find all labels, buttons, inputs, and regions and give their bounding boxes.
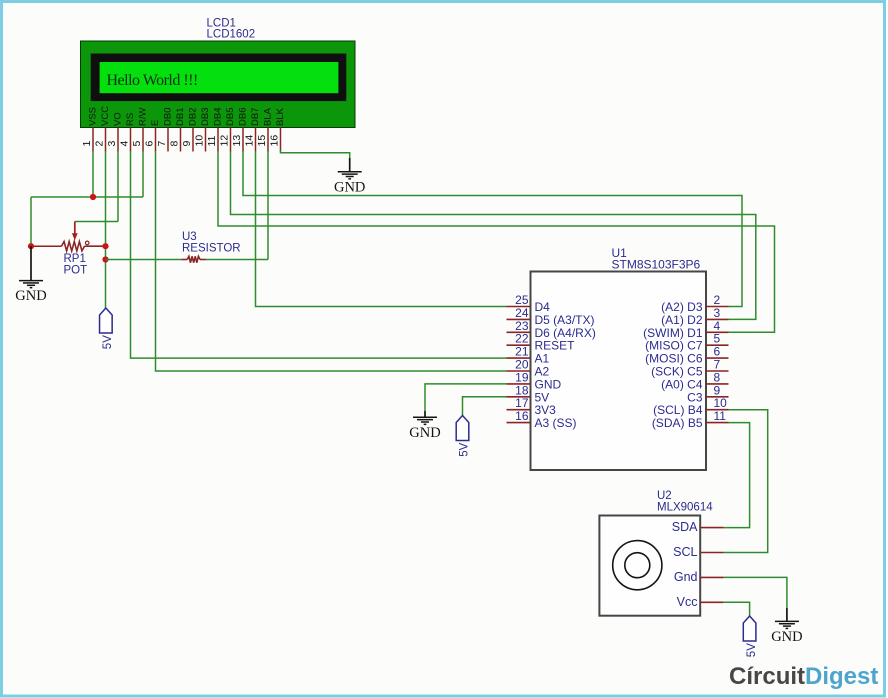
svg-text:24: 24 [515, 306, 529, 320]
LCD pin 12 DB5 stub [219, 108, 237, 152]
U1 pin 7 (SCK) C5 [651, 358, 728, 379]
svg-text:RS: RS [125, 113, 136, 126]
svg-text:5: 5 [714, 332, 721, 346]
U1 pin 10 (SCL) B4 [653, 396, 728, 417]
svg-text:17: 17 [515, 396, 529, 410]
U2 pin SCL [673, 545, 723, 559]
svg-text:Vcc: Vcc [677, 595, 698, 609]
U1 pin 19 GND [507, 370, 562, 391]
svg-text:7: 7 [156, 141, 168, 147]
svg-text:DB6: DB6 [238, 108, 249, 126]
svg-text:Hello World !!!: Hello World !!! [107, 72, 198, 89]
wire U1 5V pin18 [463, 397, 507, 416]
wire U2 Vcc to 5V [724, 602, 750, 616]
svg-text:7: 7 [714, 358, 721, 372]
svg-text:16: 16 [269, 135, 281, 147]
svg-text:GND: GND [334, 179, 365, 195]
svg-text:15: 15 [256, 135, 268, 147]
U1 pin 24 D5 (A3/TX) [507, 306, 595, 327]
svg-text:A1: A1 [535, 352, 550, 366]
svg-text:6: 6 [144, 141, 156, 147]
svg-text:RESET: RESET [535, 339, 576, 353]
U1 pin 11 (SDA) B5 [652, 409, 729, 430]
svg-text:10: 10 [714, 396, 728, 410]
svg-text:BLK: BLK [275, 107, 286, 126]
wire DB5 pin12 to U1 D2 [231, 151, 756, 319]
svg-text:(A2) D3: (A2) D3 [661, 300, 703, 314]
wire VCC to resistor [106, 259, 182, 261]
svg-text:VSS: VSS [88, 107, 99, 126]
ground LCD backlight [334, 158, 365, 195]
logo CircuitDigest [729, 663, 878, 690]
U1 pin 4 (SWIM) D1 [643, 319, 728, 340]
svg-text:GND: GND [535, 377, 562, 391]
node junction pot left [28, 243, 34, 249]
LCD pin 3 VO stub [106, 112, 124, 151]
U1 pin 16 A3 (SS) [507, 409, 577, 430]
svg-text:5V: 5V [459, 442, 471, 456]
node junction pin1 [90, 194, 96, 200]
svg-text:5V: 5V [102, 335, 114, 349]
svg-text:DB2: DB2 [188, 108, 199, 126]
U1 pin 6 (MOSI) C6 [645, 345, 728, 366]
svg-text:DB3: DB3 [200, 108, 211, 126]
potentiometer RP1 POT [62, 222, 106, 277]
U2 pin SDA [672, 520, 724, 534]
svg-text:VO: VO [113, 112, 124, 126]
U1 pin 9 C3 [687, 383, 728, 404]
ground U2 [771, 608, 802, 645]
U1 pin 17 3V3 [507, 396, 557, 417]
U2 pin Gnd [674, 570, 724, 584]
svg-text:14: 14 [244, 135, 256, 147]
svg-text:D5 (A3/TX): D5 (A3/TX) [535, 313, 595, 327]
svg-text:18: 18 [515, 383, 529, 397]
svg-text:(A0) C4: (A0) C4 [661, 377, 703, 391]
svg-text:5V: 5V [746, 643, 758, 657]
svg-text:11: 11 [714, 409, 727, 423]
LCD pin 5 R/W stub [131, 108, 149, 152]
ground U1 [409, 411, 440, 441]
LCD pin 6 E stub [144, 120, 162, 152]
svg-text:4: 4 [119, 141, 131, 147]
LCD pin 10 DB3 stub [194, 108, 212, 152]
sensor U2 MLX90614 body [599, 516, 700, 616]
svg-text:R/W: R/W [138, 108, 149, 127]
svg-text:9: 9 [714, 383, 721, 397]
U1 pin 2 (A2) D3 [661, 293, 728, 314]
svg-text:11: 11 [206, 135, 218, 146]
LCD pin 14 DB7 stub [244, 108, 262, 152]
resistor U3 [181, 231, 240, 263]
svg-text:3: 3 [714, 306, 721, 320]
svg-text:C3: C3 [687, 390, 703, 404]
power 5V U2 [743, 616, 758, 657]
svg-text:DB5: DB5 [225, 108, 236, 126]
wire DB6 pin13 to U1 D3 [243, 151, 742, 307]
svg-text:(MOSI) C6: (MOSI) C6 [645, 352, 703, 366]
wire VCC pin2 down to 5V [105, 151, 107, 308]
svg-text:SCL: SCL [673, 545, 697, 559]
svg-text:21: 21 [515, 345, 529, 359]
LCD pin 11 DB4 stub [206, 108, 224, 152]
wire VSS pin1 down [92, 151, 94, 197]
op-amp U1 STM8S103F3P6 body [531, 272, 707, 471]
power 5V U1 [456, 416, 471, 457]
node junction pot right VCC [102, 243, 108, 249]
svg-text:3V3: 3V3 [535, 403, 557, 417]
wire U1 GND pin19 [425, 384, 507, 411]
svg-text:25: 25 [515, 293, 529, 307]
U1 pin 20 A2 [507, 358, 550, 379]
U1 pin 21 A1 [507, 345, 550, 366]
U1 pin 18 5V [507, 383, 550, 404]
svg-text:19: 19 [515, 370, 529, 384]
wire GND net down left [30, 197, 32, 246]
U1 pin 23 D6 (A4/RX) [507, 319, 596, 340]
svg-text:GND: GND [15, 288, 46, 304]
svg-text:2: 2 [94, 141, 106, 147]
svg-text:(SCL) B4: (SCL) B4 [653, 403, 703, 417]
svg-text:16: 16 [515, 409, 529, 423]
svg-text:RESISTOR: RESISTOR [182, 243, 241, 255]
wire pot left to GND node [31, 245, 62, 247]
wire VSS-R/W horizontal to GND net [31, 196, 143, 198]
svg-text:E: E [150, 120, 161, 126]
svg-text:(SWIM) D1: (SWIM) D1 [643, 326, 703, 340]
svg-text:(SDA) B5: (SDA) B5 [652, 416, 703, 430]
svg-text:20: 20 [515, 358, 529, 372]
svg-text:9: 9 [181, 141, 193, 147]
wire R/W pin5 down [142, 151, 144, 197]
U2 pin Vcc [677, 595, 724, 609]
svg-text:MLX90614: MLX90614 [657, 502, 713, 514]
LCD pin 4 RS stub [119, 113, 137, 152]
svg-text:A2: A2 [535, 365, 550, 379]
svg-text:(A1) D2: (A1) D2 [661, 313, 703, 327]
svg-text:A3 (SS): A3 (SS) [535, 416, 577, 430]
svg-text:5: 5 [131, 141, 143, 147]
svg-text:DB1: DB1 [175, 108, 186, 126]
svg-text:8: 8 [169, 141, 181, 147]
svg-text:2: 2 [714, 293, 721, 307]
U1 pin 8 (A0) C4 [661, 370, 728, 391]
U1 pin 3 (A1) D2 [661, 306, 728, 327]
svg-text:DB4: DB4 [213, 108, 224, 126]
LCD pin 9 DB2 stub [181, 108, 199, 152]
LCD pin 15 BLA stub [256, 107, 274, 151]
LCD pin 13 DB6 stub [231, 108, 249, 152]
svg-text:4: 4 [714, 319, 721, 333]
U1 pin 22 RESET [507, 332, 576, 353]
svg-text:D6 (A4/RX): D6 (A4/RX) [535, 326, 596, 340]
svg-text:5V: 5V [535, 390, 550, 404]
LCD pin 1 VSS stub [81, 107, 99, 152]
wire U1 B5 SDA to U2 [724, 423, 750, 528]
svg-text:BLA: BLA [263, 107, 274, 126]
LCD pin 16 BLK stub [269, 107, 287, 151]
wire VO to pot wiper [75, 221, 118, 223]
svg-text:Gnd: Gnd [674, 570, 698, 584]
U1 pin 5 (MISO) C7 [645, 332, 728, 353]
wire U2 Gnd to GND [724, 577, 787, 608]
ground pot left [15, 246, 46, 304]
wire BLK pin16 to GND [281, 150, 350, 160]
wire VO pin3 down [117, 151, 119, 222]
wire RS pin4 to U1 A1 [131, 151, 507, 358]
wire U1 B4 SCL to U2 [724, 410, 768, 553]
svg-text:VCC: VCC [100, 106, 111, 126]
LCD LCD1 LCD1602 module [81, 41, 356, 128]
svg-text:1: 1 [81, 141, 93, 147]
svg-text:DB0: DB0 [163, 108, 174, 126]
wire BLA pin15 down [267, 151, 269, 260]
svg-text:STM8S103F3P6: STM8S103F3P6 [612, 258, 701, 272]
wire DB4 pin11 to U1 D1 [218, 151, 775, 332]
svg-text:SDA: SDA [672, 520, 698, 534]
wire DB7 pin14 to U1 D4 [256, 151, 507, 307]
svg-text:U3: U3 [182, 231, 197, 243]
svg-text:GND: GND [409, 425, 440, 441]
svg-text:D4: D4 [535, 300, 551, 314]
svg-text:GND: GND [771, 629, 802, 645]
svg-text:22: 22 [515, 332, 529, 346]
LCD pin 7 DB0 stub [156, 108, 174, 152]
svg-text:23: 23 [515, 319, 529, 333]
LCD pin 2 VCC stub [94, 106, 112, 152]
svg-text:CírcuitDigest: CírcuitDigest [729, 663, 878, 690]
svg-text:13: 13 [231, 135, 243, 147]
node junction resistor VCC [102, 256, 108, 262]
svg-text:3: 3 [106, 141, 118, 147]
wire E pin6 to U1 A2 [156, 151, 507, 371]
U1 pin 25 D4 [507, 293, 551, 314]
svg-text:8: 8 [714, 370, 721, 384]
LCD pin 8 DB1 stub [169, 108, 187, 152]
svg-text:RP1: RP1 [64, 253, 86, 265]
power 5V LCD VCC [100, 308, 115, 349]
svg-text:LCD1602: LCD1602 [207, 29, 256, 41]
svg-text:(SCK) C5: (SCK) C5 [651, 365, 703, 379]
svg-text:6: 6 [714, 345, 721, 359]
svg-text:POT: POT [64, 264, 88, 276]
svg-text:10: 10 [194, 135, 206, 147]
svg-text:DB7: DB7 [250, 108, 261, 126]
svg-text:U2: U2 [657, 490, 672, 502]
wire resistor to BLA pin15 [206, 259, 268, 261]
svg-text:(MISO) C7: (MISO) C7 [645, 339, 703, 353]
svg-text:12: 12 [219, 135, 231, 147]
